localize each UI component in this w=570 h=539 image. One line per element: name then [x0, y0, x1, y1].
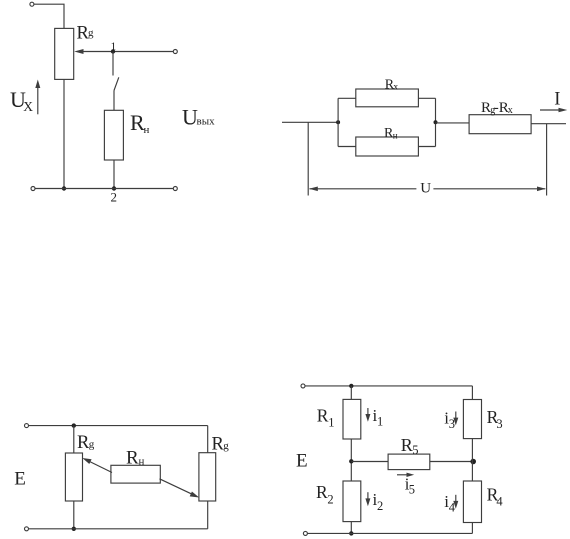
wire right vertical top — [207, 426, 209, 453]
junction — [72, 423, 76, 427]
svg-text:I: I — [554, 90, 560, 110]
resistor Rg-Rx — [469, 115, 531, 134]
wire left lead of circuit 2 — [282, 121, 338, 123]
svg-text:1: 1 — [328, 416, 334, 430]
wire — [338, 97, 356, 99]
wire — [471, 439, 473, 481]
label Uвых — [182, 105, 215, 130]
resistor R3 — [463, 400, 481, 439]
wire — [63, 79, 65, 188]
wire left tick U — [307, 122, 309, 195]
wire — [350, 439, 352, 481]
wire — [418, 97, 435, 99]
svg-text:E: E — [14, 469, 26, 490]
svg-text:1: 1 — [377, 415, 383, 429]
wire — [418, 146, 435, 148]
terminal bottom-left circuit 4 — [303, 531, 307, 535]
wire bottom of circuit 1 — [35, 188, 173, 190]
wiper arrow to left Rg — [82, 458, 112, 473]
terminal top-left circuit 3 — [25, 424, 29, 428]
label R4 — [487, 485, 504, 509]
arrow i3 — [453, 412, 458, 426]
junction — [72, 527, 76, 531]
wire — [436, 122, 470, 124]
label Rн — [130, 110, 150, 136]
junction — [336, 120, 340, 124]
svg-text:U: U — [420, 181, 431, 197]
label Rн middle — [126, 448, 145, 469]
arrow UX — [35, 80, 40, 115]
svg-text:-R: -R — [494, 100, 509, 116]
svg-text:3: 3 — [496, 417, 502, 431]
terminal bottom-left circuit 3 — [25, 527, 29, 531]
terminal bottom-right — [173, 187, 177, 191]
svg-text:R: R — [316, 482, 328, 502]
resistor Rg right — [199, 453, 216, 501]
wire right branch vertical — [435, 98, 437, 146]
junction — [434, 120, 438, 124]
wire right tick U — [546, 124, 548, 196]
label Rg — [77, 23, 95, 43]
svg-text:вых: вых — [197, 116, 216, 128]
junction — [349, 531, 353, 535]
resistor R2 — [343, 481, 361, 522]
svg-text:4: 4 — [496, 495, 503, 509]
label Rg-Rx — [481, 100, 513, 116]
wire — [430, 461, 473, 463]
resistor Rx — [356, 89, 419, 107]
resistor Rg left — [65, 453, 82, 501]
svg-text:2: 2 — [327, 492, 333, 506]
resistor R4 — [463, 481, 481, 523]
wire bottom circuit 3 — [29, 528, 208, 530]
wire — [73, 426, 75, 453]
label Rg right — [212, 435, 230, 455]
junction center-right big — [470, 459, 476, 465]
terminal top-left of circuit 1 — [30, 2, 34, 6]
label R2 — [316, 482, 334, 506]
resistor R1 — [343, 399, 361, 439]
svg-text:X: X — [23, 99, 33, 114]
svg-text:5: 5 — [409, 483, 415, 497]
svg-text:5: 5 — [412, 443, 418, 457]
svg-text:R: R — [126, 448, 139, 469]
label Rx — [385, 77, 399, 92]
label i5 — [405, 474, 415, 496]
svg-text:x: x — [393, 83, 398, 93]
wiper arrow to right Rg — [160, 479, 200, 498]
arrow i5 — [397, 473, 414, 477]
wire — [338, 146, 356, 148]
svg-text:R: R — [317, 406, 329, 426]
wire — [350, 386, 352, 400]
switch — [113, 52, 119, 111]
svg-text:2: 2 — [377, 499, 383, 513]
wire top circuit 3 — [29, 425, 208, 427]
label R3 — [487, 407, 503, 431]
svg-text:x: x — [508, 105, 513, 116]
resistor Rн — [104, 110, 123, 160]
wire — [73, 501, 75, 529]
node 2 — [112, 186, 116, 190]
label Rн — [384, 126, 398, 141]
svg-text:н: н — [144, 124, 150, 136]
svg-text:g: g — [223, 440, 229, 452]
junction — [349, 384, 353, 388]
label i1 — [373, 406, 384, 429]
resistor Rн parallel — [356, 137, 419, 156]
label UX — [10, 87, 33, 114]
label i3 — [444, 409, 455, 432]
node 1 — [111, 49, 115, 53]
svg-text:g: g — [89, 439, 95, 451]
resistor Rg (potentiometer) — [55, 28, 74, 79]
svg-text:R: R — [401, 435, 413, 455]
label i4 — [444, 492, 456, 515]
svg-text:н: н — [139, 455, 145, 467]
dimension line U right — [433, 187, 545, 192]
junction center-left — [349, 459, 353, 463]
wire right lead — [531, 123, 566, 125]
arrow i4 — [453, 495, 458, 509]
label i2 — [373, 490, 384, 513]
wire right vertical bottom — [207, 501, 209, 529]
wire — [350, 522, 352, 534]
wire right column top — [471, 386, 473, 400]
label R1 — [317, 406, 335, 430]
wire — [34, 4, 64, 28]
resistor R5 — [388, 454, 430, 470]
wire — [471, 523, 473, 534]
wire top circuit 4 — [305, 385, 472, 387]
arrow i1 — [365, 408, 370, 422]
dimension line U left — [309, 187, 416, 192]
wire left branch vertical — [337, 98, 339, 146]
junction — [62, 186, 66, 190]
arrow I — [540, 108, 567, 113]
terminal top-left circuit 4 — [301, 384, 305, 388]
svg-text:2: 2 — [111, 190, 118, 205]
wire bottom circuit 4 — [308, 532, 473, 534]
wire — [351, 461, 388, 463]
arrow i2 — [365, 492, 370, 506]
svg-text:g: g — [88, 27, 94, 39]
svg-text:E: E — [296, 450, 308, 471]
svg-text:н: н — [393, 130, 398, 140]
terminal right of wiper wire — [173, 50, 177, 54]
wiper arrow into Rg — [74, 49, 174, 54]
label R5 — [401, 435, 419, 457]
label Rg left — [77, 433, 95, 453]
resistor Rн middle — [111, 465, 160, 483]
wire — [113, 160, 115, 189]
svg-text:1: 1 — [111, 41, 117, 53]
terminal bottom-left — [31, 187, 35, 191]
